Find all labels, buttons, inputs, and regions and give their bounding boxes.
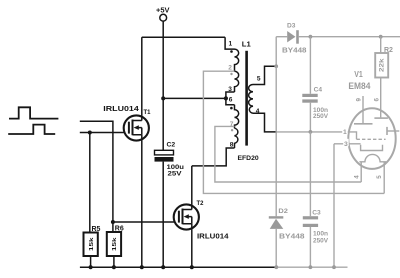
svg-text:9: 9 (356, 98, 363, 102)
svg-text:8: 8 (230, 142, 234, 149)
wire pin2 gray to heater line (203, 71, 384, 193)
node rail R6 (112, 265, 116, 269)
wire T1 drain up (141, 37, 143, 120)
svg-text:22k: 22k (380, 58, 386, 72)
wire cathode line pin3 (334, 143, 361, 145)
svg-text:3: 3 (228, 86, 232, 93)
bottom rail gray (276, 266, 347, 268)
tube anode plate pin9 (354, 123, 373, 125)
supply +5V terminal (156, 7, 170, 21)
svg-text:V1: V1 (354, 70, 363, 79)
svg-text:BY448: BY448 (282, 48, 307, 55)
wire R5 branch (89, 133, 91, 233)
node C4 bottom junction (309, 130, 313, 134)
wire pin1 from +5V rail (225, 37, 234, 49)
transformer core (245, 51, 248, 146)
svg-text:6: 6 (373, 98, 380, 102)
wire T2 gate horizontal (113, 221, 174, 223)
svg-text:IRLU014: IRLU014 (103, 104, 140, 113)
node rail cathode (332, 265, 336, 269)
input waveform bottom (8, 125, 55, 134)
svg-text:6: 6 (229, 97, 233, 104)
tube plate pin6 (374, 117, 388, 119)
tube pin4 wire down (360, 162, 362, 182)
node pin5 D3 junction (274, 64, 278, 68)
wire R6 branch (112, 222, 114, 232)
node rail R5 (89, 265, 93, 269)
transformer L1 primary winding 6-7 (235, 105, 239, 129)
tube right bar electrode (386, 127, 388, 135)
node C4 top junction (309, 35, 313, 39)
svg-text:1: 1 (343, 129, 347, 136)
tube cathode bracket (361, 145, 383, 151)
svg-text:5: 5 (257, 75, 261, 82)
capacitor C4 (302, 86, 329, 132)
svg-text:IRLU014: IRLU014 (197, 231, 230, 240)
svg-text:BY448: BY448 (279, 233, 305, 240)
transformer polarity dot winding1 (230, 50, 233, 53)
transformer L1 primary winding 7-8 (235, 128, 238, 148)
polarity dot winding4 (231, 129, 233, 131)
svg-text:4: 4 (256, 108, 260, 115)
wire D3 anode down to pin5 node (275, 37, 277, 67)
svg-text:15k: 15k (112, 237, 118, 251)
svg-text:25V: 25V (168, 171, 183, 178)
svg-text:15k: 15k (89, 237, 95, 251)
svg-text:2: 2 (228, 65, 232, 72)
tube pin6 wire (380, 116, 382, 119)
wire T2 source down (191, 224, 193, 267)
svg-text:250V: 250V (313, 237, 329, 244)
bottom rail black (80, 266, 276, 268)
wire pin7 gray to heater line (215, 126, 361, 182)
wire center tap to pin6 (163, 97, 226, 99)
svg-text:T1: T1 (144, 110, 152, 116)
tube heater filament (359, 154, 386, 161)
svg-text:C4: C4 (314, 86, 323, 93)
wire secondary pin5 (253, 66, 276, 84)
node rail C2 (161, 265, 165, 269)
node rail T2 source (190, 265, 194, 269)
capacitor C2 (155, 142, 185, 268)
wire secondary pin4 (253, 113, 277, 132)
svg-text:R6: R6 (115, 226, 124, 233)
wire T1 source down (141, 135, 143, 267)
label pin 3 (343, 139, 349, 148)
node rail T1 source (140, 265, 144, 269)
svg-text:C3: C3 (312, 210, 321, 217)
svg-text:7: 7 (230, 121, 234, 128)
polarity dot winding2 (230, 73, 232, 75)
capacitor C3 (303, 210, 329, 268)
wire C4 from D3 line (309, 37, 311, 94)
node R5 junction (88, 131, 92, 135)
diode D3 (276, 22, 400, 54)
wire bottom input to T1 gate (80, 132, 124, 134)
wire +5V horizontal rail (142, 36, 225, 38)
svg-text:EM84: EM84 (348, 81, 370, 91)
svg-text:250V: 250V (313, 113, 329, 120)
wire pin8 to T2 drain (192, 148, 235, 166)
node rail C3 (309, 265, 313, 269)
svg-text:L1: L1 (242, 40, 251, 49)
node pin6 center tap (224, 96, 228, 100)
svg-text:R2: R2 (384, 47, 393, 54)
tube pin9 wire (362, 96, 364, 123)
svg-text:D3: D3 (287, 22, 296, 29)
wire pin3 jog to pin6 (226, 92, 235, 105)
wire +5V vertical down to C2 (162, 21, 164, 150)
transformer L1 primary winding 1-2 (235, 49, 239, 71)
wire T2 drain up (191, 166, 193, 210)
wire top input to T2 gate vertical (80, 121, 113, 222)
wire pin5 node down to D2 (275, 66, 277, 216)
wire pin3 down to rail (333, 144, 335, 267)
svg-text:5: 5 (376, 175, 383, 179)
resistor R6 (107, 226, 124, 268)
svg-text:EFD20: EFD20 (238, 155, 259, 162)
transistor T1 (103, 104, 151, 141)
transformer L1 primary winding 2-3 (235, 71, 239, 92)
svg-text:C2: C2 (167, 142, 176, 149)
svg-text:+5V: +5V (156, 7, 170, 14)
svg-text:T2: T2 (197, 201, 205, 207)
wire C3 down from grid node (309, 132, 311, 216)
svg-text:1: 1 (229, 41, 233, 48)
wire right bar stub (387, 130, 399, 132)
tube V1 envelope (348, 108, 395, 169)
label pin 1 (342, 127, 348, 136)
svg-text:D2: D2 (278, 208, 288, 215)
tube grid dashes (357, 138, 386, 140)
node T2 gate junction (111, 220, 115, 224)
svg-text:3: 3 (344, 141, 348, 148)
resistor R5 (84, 226, 101, 267)
tube pin5 wire down (383, 162, 385, 194)
svg-text:4: 4 (353, 175, 360, 179)
diode D2 (269, 208, 305, 267)
input waveform top (9, 107, 58, 118)
node rail D2 (274, 265, 278, 269)
node center tap at C2 line (161, 96, 165, 100)
transformer L1 secondary winding 5-4 (249, 85, 253, 114)
transformer polarity dot winding3 (230, 107, 233, 110)
wire grid line from pin4 to tube (277, 132, 357, 139)
node R2 top junction (379, 35, 383, 39)
transistor T2 (174, 201, 230, 241)
resistor R2 (375, 37, 393, 118)
svg-text:R5: R5 (92, 226, 101, 233)
